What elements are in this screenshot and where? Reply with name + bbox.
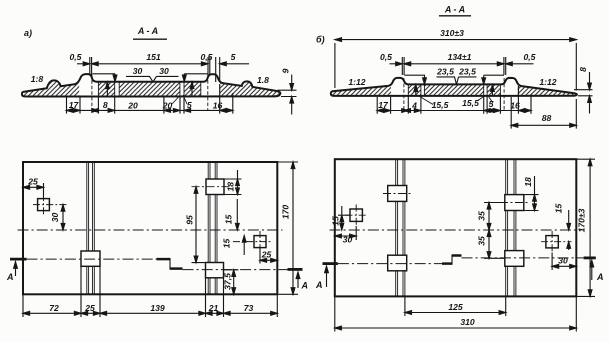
top dim extension lines a — [90, 57, 220, 82]
svg-text:20: 20 — [127, 100, 138, 110]
A marker left (right plan) — [323, 262, 338, 265]
dim 95 — [192, 187, 206, 263]
svg-text:18: 18 — [225, 182, 235, 192]
svg-text:15: 15 — [222, 239, 232, 249]
clamp rib1 lower right plan — [388, 255, 407, 271]
svg-text:4: 4 — [411, 100, 417, 110]
rib 1 lines left plan — [87, 162, 95, 294]
dim 15 lower — [243, 236, 245, 255]
leader ticks b — [419, 95, 493, 105]
hole square right (right plan) — [546, 236, 558, 248]
clamp rib1 upper right plan — [388, 186, 407, 202]
hole square top-left — [38, 199, 50, 211]
clamp rib2 upper right plan — [505, 195, 524, 211]
svg-text:73: 73 — [244, 303, 254, 313]
right plan centerline — [330, 229, 582, 231]
svg-text:1:12: 1:12 — [348, 77, 365, 87]
dim 310 bottom — [335, 296, 577, 331]
dim 0,5 left a — [77, 63, 90, 65]
dim 151 — [92, 63, 208, 65]
leader ticks a — [172, 95, 187, 104]
recess leader lines a — [92, 74, 207, 79]
svg-text:15,5: 15,5 — [432, 100, 449, 110]
rib 2 lines right plan — [506, 159, 516, 296]
square TL cross — [33, 194, 67, 215]
dim 15 upper — [236, 199, 238, 230]
svg-text:1.8: 1.8 — [257, 75, 269, 85]
A marker right (right plan) — [584, 256, 596, 259]
svg-text:30: 30 — [558, 255, 568, 265]
svg-text:310: 310 — [460, 317, 475, 327]
svg-text:A: A — [301, 281, 309, 291]
svg-text:151: 151 — [146, 52, 161, 62]
bottom extension lines b — [377, 86, 531, 114]
recess up arrows a — [107, 86, 192, 96]
svg-text:23,5: 23,5 — [458, 66, 476, 76]
section b outline — [331, 78, 577, 96]
svg-text:23,5: 23,5 — [436, 66, 454, 76]
svg-text:5: 5 — [231, 52, 236, 62]
svg-text:21: 21 — [208, 303, 219, 313]
hatching section a — [22, 70, 281, 100]
bottom dim line a — [67, 109, 233, 111]
dim 170+-3 — [576, 159, 595, 296]
dim 5 top a — [220, 63, 249, 65]
svg-text:25: 25 — [84, 303, 95, 313]
svg-text:18: 18 — [523, 177, 533, 187]
dim 134+-1 — [404, 63, 504, 65]
svg-text:35: 35 — [477, 211, 487, 221]
svg-text:25: 25 — [261, 250, 272, 260]
svg-text:A: A — [6, 272, 14, 282]
recess leader lines b — [405, 75, 505, 80]
clamp rib1 lower — [81, 251, 100, 266]
svg-text:134±1: 134±1 — [448, 52, 472, 62]
svg-text:170±3: 170±3 — [576, 208, 586, 232]
rib 2 lines left plan — [208, 162, 217, 294]
A marker right (left plan) — [288, 268, 303, 271]
cutting line A-A right plan — [338, 263, 442, 265]
dim 0,5 left b — [390, 63, 403, 65]
svg-text:139: 139 — [150, 303, 165, 313]
dim 15 left (right plan) — [338, 206, 350, 230]
svg-text:30: 30 — [343, 235, 353, 245]
svg-text:5: 5 — [187, 100, 192, 110]
clamp rib2 upper — [206, 179, 224, 195]
dim 30 leaders a — [126, 76, 179, 81]
svg-text:8: 8 — [103, 100, 108, 110]
dim 88 — [511, 97, 576, 129]
clamp rib2 lower right plan — [505, 251, 524, 267]
svg-text:30: 30 — [50, 213, 60, 223]
svg-text:0,5: 0,5 — [380, 52, 392, 62]
svg-text:16: 16 — [213, 100, 223, 110]
bottom extension lines left plan — [23, 266, 277, 317]
dim 8 right b — [574, 72, 593, 114]
dim 30 left (right plan) — [335, 226, 356, 240]
dashed rib edge lines b — [404, 78, 504, 110]
clamp rib2 upper centerline — [500, 202, 529, 204]
bottom dim line b — [377, 110, 531, 112]
svg-text:20: 20 — [162, 100, 173, 110]
svg-text:0,5: 0,5 — [524, 52, 536, 62]
svg-text:15,5: 15,5 — [462, 98, 479, 108]
svg-text:б): б) — [316, 35, 325, 45]
dim 30 top-left — [62, 205, 64, 230]
svg-text:15: 15 — [554, 204, 564, 214]
svg-text:9: 9 — [280, 68, 290, 73]
svg-text:30: 30 — [133, 66, 143, 76]
svg-text:A - A: A - A — [137, 26, 158, 36]
dim 125 — [405, 296, 506, 316]
svg-text:15: 15 — [224, 215, 234, 225]
svg-text:310±3: 310±3 — [440, 28, 464, 38]
rib 1 lines right plan — [396, 159, 405, 296]
svg-text:35: 35 — [477, 236, 487, 246]
left plan outline — [23, 162, 277, 294]
recess up arrows b — [416, 89, 493, 96]
clamp rib2 upper centerline — [192, 186, 230, 188]
A marker left — [10, 258, 27, 261]
left plan centerline — [18, 229, 283, 231]
dim 0,5 right b — [506, 63, 534, 65]
hatching section b — [331, 74, 577, 99]
svg-text:17: 17 — [69, 100, 80, 110]
dashed rib edge lines a — [92, 75, 208, 111]
dim 30 right (right plan) — [552, 253, 576, 271]
svg-text:95: 95 — [185, 215, 195, 225]
svg-text:1:8: 1:8 — [31, 74, 44, 84]
square R cross — [233, 231, 271, 252]
svg-text:A: A — [596, 272, 604, 282]
svg-text:88: 88 — [542, 113, 552, 123]
dim 37,5 — [224, 270, 239, 295]
svg-text:30: 30 — [159, 66, 169, 76]
square cross right — [541, 231, 572, 253]
dim 25 top-left — [23, 183, 44, 199]
title underline left — [133, 38, 167, 40]
svg-text:0,5: 0,5 — [201, 52, 213, 62]
dim 170 — [277, 162, 298, 294]
dim 23,5 leaders b — [437, 77, 477, 84]
hole square right — [254, 236, 266, 248]
dim 18 right plan — [524, 176, 539, 211]
dim 9 right a — [278, 75, 297, 115]
right plan outline — [335, 159, 577, 296]
top dim extension lines b — [402, 57, 505, 75]
svg-text:125: 125 — [448, 302, 463, 312]
hatch band borders b — [408, 85, 500, 96]
bottom dim line left plan — [23, 312, 277, 314]
svg-text:25: 25 — [27, 176, 38, 186]
hole square left (right plan) — [350, 209, 362, 221]
title underline right — [439, 15, 471, 17]
dim 35 35 — [484, 203, 505, 259]
clamp rib1 upper centerline — [383, 193, 412, 195]
svg-text:A - A: A - A — [444, 5, 465, 15]
dim 310+-3 top — [335, 40, 576, 91]
svg-text:a): a) — [24, 28, 32, 38]
svg-text:15: 15 — [330, 216, 340, 226]
svg-text:1:12: 1:12 — [539, 77, 556, 87]
svg-text:170: 170 — [281, 205, 291, 220]
clamp rib2 lower — [206, 263, 224, 278]
square cross left — [346, 205, 368, 227]
hatch band borders a — [98, 82, 200, 97]
dim 25 right — [260, 248, 277, 264]
bottom extension lines a — [67, 84, 233, 114]
svg-text:A: A — [315, 280, 323, 290]
section a outline — [22, 74, 280, 96]
dim 18 left plan — [224, 170, 242, 195]
svg-text:0,5: 0,5 — [70, 52, 82, 62]
svg-text:17: 17 — [378, 100, 389, 110]
cutting line A-A left plan — [27, 258, 157, 260]
dim 15 right (right plan) — [568, 210, 570, 250]
svg-text:72: 72 — [49, 303, 59, 313]
svg-text:8: 8 — [578, 67, 588, 72]
